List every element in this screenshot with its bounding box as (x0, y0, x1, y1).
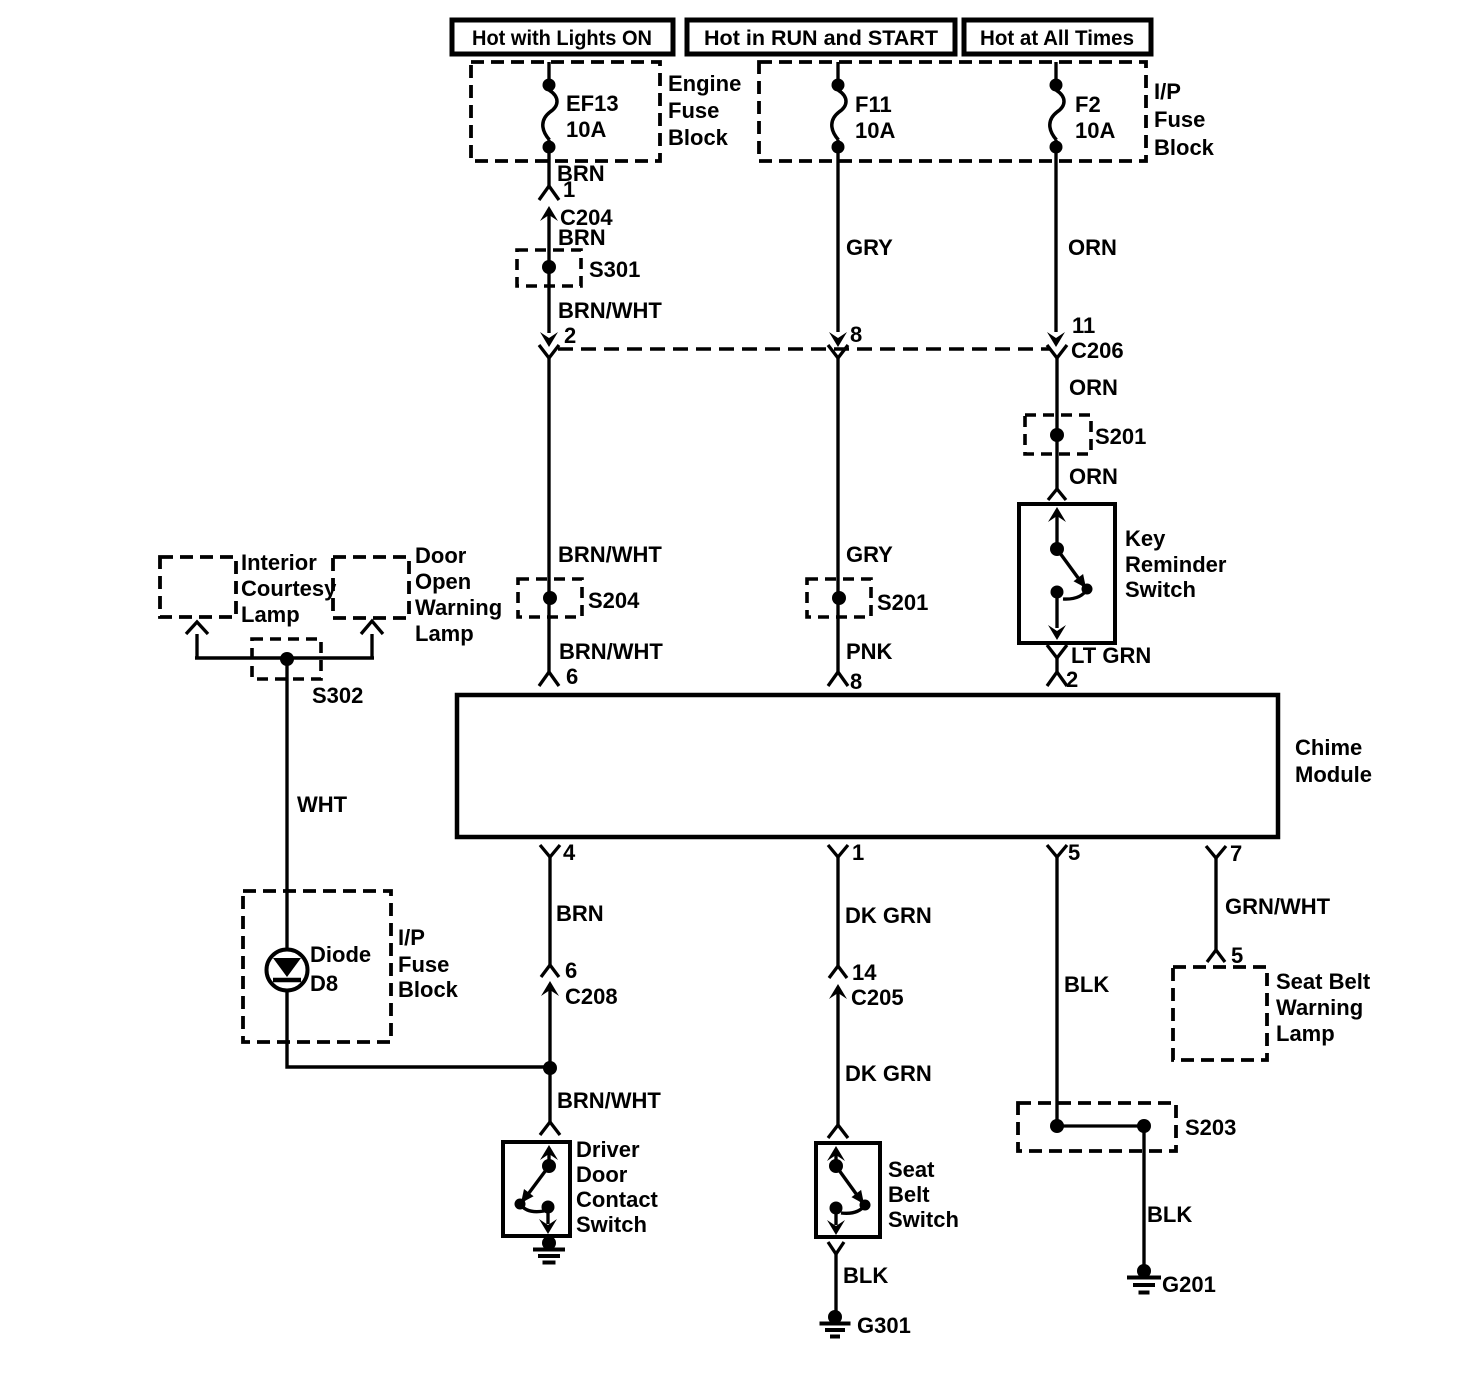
wire joining lamps (195, 656, 374, 660)
svg-text:BRN/WHT: BRN/WHT (559, 639, 663, 664)
seat belt switch blade (836, 1166, 871, 1213)
svg-text:BRN/WHT: BRN/WHT (558, 542, 662, 567)
svg-text:2: 2 (564, 323, 576, 348)
svg-text:1: 1 (852, 840, 864, 865)
svg-text:Hot in RUN and START: Hot in RUN and START (704, 27, 938, 50)
svg-text:DK GRN: DK GRN (845, 903, 932, 928)
key reminder switch box (1019, 504, 1115, 643)
svg-text:6: 6 (565, 958, 577, 983)
label F11 10A (855, 92, 895, 143)
label Seat Belt Switch (888, 1157, 959, 1232)
ground G201 (1127, 1264, 1161, 1293)
svg-text:ORN: ORN (1068, 235, 1117, 260)
svg-text:Switch: Switch (576, 1212, 647, 1237)
seat belt switch entry socket (828, 1125, 848, 1138)
svg-text:Chime: Chime (1295, 735, 1362, 760)
label Interior Courtesy Lamp (241, 550, 337, 627)
svg-text:Fuse: Fuse (1154, 107, 1205, 132)
svg-text:10A: 10A (855, 118, 895, 143)
label C206 (1071, 338, 1124, 363)
svg-text:C208: C208 (565, 984, 618, 1009)
svg-text:BRN/WHT: BRN/WHT (557, 1088, 661, 1113)
label F2 10A (1075, 92, 1115, 143)
label Engine Fuse Block (668, 71, 741, 150)
socket below C206 (col 2) (828, 345, 848, 672)
svg-text:I/P: I/P (398, 925, 425, 950)
svg-text:Diode: Diode (310, 942, 371, 967)
header box: Hot in RUN and START (687, 20, 955, 54)
seat belt switch bottom contact (830, 1202, 843, 1215)
chime module pin 5 socket (1047, 840, 1080, 1126)
socket below key reminder switch (1047, 645, 1067, 672)
label S302 (312, 683, 363, 708)
label I/P Fuse Block (top) (1154, 79, 1215, 160)
svg-text:S204: S204 (588, 588, 640, 613)
svg-text:BLK: BLK (1147, 1202, 1192, 1227)
svg-text:Warning: Warning (415, 595, 502, 620)
svg-text:Lamp: Lamp (241, 602, 300, 627)
svg-text:S301: S301 (589, 257, 640, 282)
wire ORN from F2 (1068, 235, 1117, 260)
svg-text:Reminder: Reminder (1125, 552, 1227, 577)
svg-text:Lamp: Lamp (1276, 1021, 1335, 1046)
wire label BRN/WHT (above driver door switch) (557, 1088, 661, 1113)
svg-text:S201: S201 (877, 590, 928, 615)
connector C208 socket (541, 958, 577, 983)
wire label PNK (846, 639, 893, 664)
header box: Hot at All Times (964, 20, 1151, 54)
svg-text:Belt: Belt (888, 1182, 930, 1207)
seat belt warning lamp pin 5 socket (1207, 943, 1243, 968)
svg-text:5: 5 (1068, 840, 1080, 865)
svg-text:S201: S201 (1095, 424, 1146, 449)
svg-text:10A: 10A (1075, 118, 1115, 143)
driver door contact switch box (503, 1142, 570, 1236)
svg-text:8: 8 (850, 669, 862, 694)
svg-text:F2: F2 (1075, 92, 1101, 117)
wire label GRY (above S201) (846, 542, 893, 567)
driver door contact switch entry socket (540, 1122, 560, 1135)
svg-text:2: 2 (1066, 667, 1078, 692)
svg-text:D8: D8 (310, 971, 338, 996)
wire label GRN/WHT (1225, 894, 1331, 919)
wire WHT down from S302 (287, 659, 348, 950)
fuse EF13 10A (543, 62, 558, 186)
splice S201 (dashed box, center) (807, 579, 871, 617)
chime module pin 4 socket (540, 840, 576, 965)
svg-text:BRN: BRN (558, 225, 606, 250)
splice S302 (dashed box) (252, 639, 321, 679)
chime module pin 6 socket (539, 664, 578, 689)
interior courtesy lamp socket (186, 622, 208, 658)
svg-text:Hot with Lights ON: Hot with Lights ON (472, 27, 652, 50)
label EF13 10A (566, 91, 619, 142)
wire label BLK (pin 5) (1064, 972, 1109, 997)
label Driver Door Contact Switch (576, 1137, 659, 1237)
svg-text:Hot at All Times: Hot at All Times (980, 27, 1134, 50)
connector C204 (male arrow up) (540, 205, 613, 333)
svg-text:Contact: Contact (576, 1187, 659, 1212)
dashed harness wire C206 (558, 347, 1050, 350)
wire label DK GRN (lower) (845, 1061, 932, 1086)
svg-text:C205: C205 (851, 985, 904, 1010)
svg-text:14: 14 (852, 960, 877, 985)
svg-text:10A: 10A (566, 117, 606, 142)
label Door Open Warning Lamp (415, 543, 502, 646)
svg-text:Block: Block (668, 125, 729, 150)
splice S203 (dashed box) (1018, 1103, 1176, 1151)
svg-text:GRY: GRY (846, 235, 893, 260)
socket below C206 (col 3) (1047, 345, 1067, 490)
wire label BRN/WHT (above S204) (558, 542, 662, 567)
driver door contact switch blade (515, 1166, 550, 1212)
svg-text:Warning: Warning (1276, 995, 1363, 1020)
svg-text:BLK: BLK (1064, 972, 1109, 997)
connector pin 2 into C206 (male arrow down) (540, 323, 576, 348)
svg-text:Block: Block (398, 977, 459, 1002)
ground G301 (820, 1310, 851, 1337)
splice S301 (dashed box) (517, 250, 581, 286)
connector C205 (male arrow up) (829, 984, 904, 1125)
svg-text:PNK: PNK (846, 639, 893, 664)
label Diode D8 (310, 942, 371, 996)
wire label BRN/WHT (558, 298, 662, 323)
label S301 (589, 257, 640, 282)
svg-text:Seat Belt: Seat Belt (1276, 969, 1371, 994)
seat belt switch pin arrow (in) (827, 1146, 845, 1166)
interior courtesy lamp (dashed box) (160, 557, 236, 617)
svg-text:WHT: WHT (297, 792, 348, 817)
chime module U1 (457, 695, 1278, 837)
driver door contact switch pin arrow (in) (540, 1145, 558, 1166)
wire label DK GRN (upper) (845, 903, 932, 928)
connector pin 11 into C206 (male arrow down) (1047, 313, 1095, 347)
svg-text:Key: Key (1125, 526, 1166, 551)
svg-text:ORN: ORN (1069, 375, 1118, 400)
splice S201 (dashed box, right) (1025, 415, 1091, 454)
driver door contact switch pin arrow (out) (539, 1207, 557, 1234)
wire label ORN (below S201) (1069, 464, 1118, 489)
label Seat Belt Warning Lamp (1276, 969, 1371, 1046)
svg-text:8: 8 (850, 322, 862, 347)
chime module pin 1 socket (828, 840, 864, 966)
wire label BLK (seat belt) (843, 1263, 888, 1288)
svg-text:ORN: ORN (1069, 464, 1118, 489)
label G301 (857, 1313, 911, 1338)
wire label BRN (pin 4) (556, 901, 604, 926)
seat belt switch pin arrow (out) (827, 1208, 845, 1235)
fuse F2 10A (1050, 62, 1065, 332)
svg-text:1: 1 (563, 177, 575, 202)
svg-text:BLK: BLK (843, 1263, 888, 1288)
I/P Fuse Block (dashed box, top) (759, 62, 1146, 161)
ground below driver door contact switch (533, 1236, 565, 1263)
svg-text:Door: Door (576, 1162, 628, 1187)
wire label LT GRN (1071, 643, 1151, 668)
key reminder switch top contact (1050, 542, 1064, 556)
svg-text:Module: Module (1295, 762, 1372, 787)
svg-text:I/P: I/P (1154, 79, 1181, 104)
svg-text:F11: F11 (855, 92, 892, 117)
svg-text:Fuse: Fuse (668, 98, 719, 123)
connector C208 (male arrow up) (541, 981, 618, 1122)
svg-text:BRN: BRN (556, 901, 604, 926)
label Key Reminder Switch (1125, 526, 1227, 602)
label S201 (center) (877, 590, 928, 615)
label I/P Fuse Block (diode) (398, 925, 459, 1002)
key reminder switch pin arrow (in) (1048, 507, 1066, 549)
svg-text:C206: C206 (1071, 338, 1124, 363)
diode D8 (267, 950, 308, 991)
svg-text:S302: S302 (312, 683, 363, 708)
wire label ORN (above S201) (1069, 375, 1118, 400)
label S204 (588, 588, 640, 613)
svg-text:GRN/WHT: GRN/WHT (1225, 894, 1331, 919)
svg-text:EF13: EF13 (566, 91, 619, 116)
label S203 (1185, 1115, 1236, 1140)
door open warning lamp (dashed box) (333, 557, 409, 618)
key reminder switch blade (1057, 549, 1093, 599)
key reminder switch entry socket (1048, 489, 1066, 500)
socket below seat belt switch (828, 1242, 844, 1311)
svg-text:LT GRN: LT GRN (1071, 643, 1151, 668)
svg-text:6: 6 (566, 664, 578, 689)
connector C205 socket (829, 960, 877, 985)
Engine Fuse Block (dashed box) (471, 62, 660, 161)
svg-text:Switch: Switch (888, 1207, 959, 1232)
svg-text:Fuse: Fuse (398, 952, 449, 977)
svg-text:5: 5 (1231, 943, 1243, 968)
wire label BRN/WHT (below S204) (559, 639, 663, 664)
driver door contact switch top contact (542, 1159, 556, 1173)
chime module pin 8 socket (828, 669, 862, 694)
svg-text:Door: Door (415, 543, 467, 568)
label S201 (right) (1095, 424, 1146, 449)
seat belt switch top contact (829, 1159, 843, 1173)
svg-text:4: 4 (563, 840, 576, 865)
svg-text:Lamp: Lamp (415, 621, 474, 646)
wire label BRN (558, 225, 606, 250)
label G201 (1162, 1272, 1216, 1297)
svg-text:Driver: Driver (576, 1137, 640, 1162)
header box: Hot with Lights ON (452, 20, 673, 54)
svg-text:Switch: Switch (1125, 577, 1196, 602)
door open warning lamp socket (361, 621, 383, 658)
svg-text:Interior: Interior (241, 550, 317, 575)
svg-text:Courtesy: Courtesy (241, 576, 337, 601)
svg-text:DK GRN: DK GRN (845, 1061, 932, 1086)
svg-text:Block: Block (1154, 135, 1215, 160)
seat belt switch box (816, 1143, 880, 1237)
fuse F11 10A (832, 62, 847, 332)
svg-text:S203: S203 (1185, 1115, 1236, 1140)
chime module pin 7 socket (1206, 841, 1242, 950)
svg-text:Seat: Seat (888, 1157, 935, 1182)
chime module pin 2 socket (1047, 667, 1078, 692)
connector pin 1 socket (539, 177, 575, 202)
svg-text:GRY: GRY (846, 542, 893, 567)
wire label BLK (to G201) (1147, 1202, 1192, 1227)
splice S204 (dashed box) (518, 579, 582, 617)
socket below C206 (col 1) (539, 345, 559, 672)
key reminder switch bottom contact (1051, 586, 1064, 599)
svg-text:7: 7 (1230, 841, 1242, 866)
svg-text:Engine: Engine (668, 71, 741, 96)
wire GRY from F11 (846, 235, 893, 260)
wire BRN from EF13 (557, 161, 605, 186)
svg-text:G301: G301 (857, 1313, 911, 1338)
svg-text:Open: Open (415, 569, 471, 594)
wire from diode to junction (287, 990, 550, 1067)
splice S203 junction dots and jog (1050, 1119, 1151, 1266)
svg-text:11: 11 (1072, 313, 1095, 338)
junction dot at diode feed (543, 1061, 557, 1075)
driver door contact switch bottom contact (542, 1201, 555, 1214)
svg-text:G201: G201 (1162, 1272, 1216, 1297)
I/P Fuse Block (dashed box, diode) (243, 891, 391, 1042)
connector pin 8 into C206 (male arrow down) (829, 322, 862, 347)
seat belt warning lamp (dashed box) (1173, 967, 1267, 1060)
key reminder switch pin arrow (out) (1048, 592, 1066, 640)
svg-text:BRN/WHT: BRN/WHT (558, 298, 662, 323)
label Chime Module (1295, 735, 1372, 787)
